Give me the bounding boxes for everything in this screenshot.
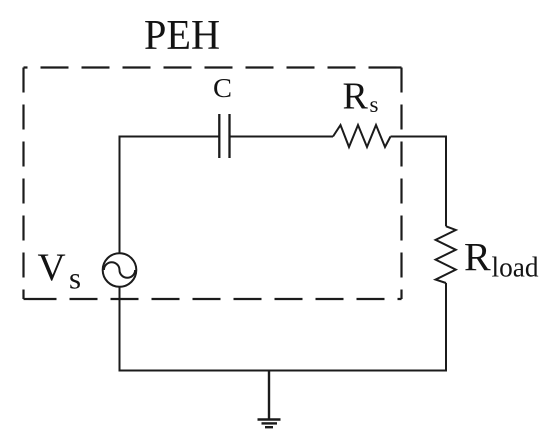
- PEH enclosure dashed box: top edge: [24, 66, 402, 68]
- wire: ground stem from bottom rail junction: [268, 371, 270, 420]
- PEH enclosure dashed box: left edge: [22, 68, 24, 300]
- resistor Rs: zigzag body: [333, 125, 391, 147]
- PEH enclosure dashed box: bottom-left corner stub: [24, 298, 29, 300]
- wire: top rail from capacitor C right plate to resistor Rs: [230, 136, 334, 138]
- ground symbol: bottom bar: [265, 426, 273, 428]
- ground symbol: middle bar: [262, 422, 278, 424]
- svg-text:R: R: [343, 76, 369, 118]
- svg-text:V: V: [38, 246, 66, 289]
- svg-text:C: C: [213, 73, 232, 103]
- svg-text:load: load: [492, 252, 539, 284]
- PEH enclosure dashed box: bottom edge: [24, 298, 402, 300]
- svg-text:R: R: [464, 235, 491, 280]
- ground symbol: top bar: [258, 418, 281, 420]
- wire: from source Vs bottom terminal down to bottom rail: [119, 287, 121, 371]
- svg-text:PEH: PEH: [144, 13, 220, 59]
- wire: top rail from left node to capacitor C left plate: [120, 136, 220, 138]
- PEH enclosure dashed box: right edge: [400, 68, 402, 300]
- svg-text:s: s: [69, 261, 81, 296]
- wire: right rail from resistor Rload down to bottom-right corner: [445, 283, 447, 371]
- wire: vertical from top node down to source Vs top terminal: [119, 136, 121, 254]
- resistor Rload: zigzag body: [436, 226, 456, 283]
- capacitor C: right plate: [228, 114, 230, 158]
- wire: bottom rail: [119, 370, 448, 372]
- svg-text:s: s: [370, 92, 379, 117]
- source Vs: AC source circle: [103, 253, 137, 287]
- capacitor C: left plate: [218, 114, 220, 158]
- wire: top rail from resistor Rs to top-right corner: [391, 136, 447, 138]
- wire: right rail from top-right corner down to resistor Rload: [445, 136, 447, 227]
- PEH enclosure dashed box: top-right corner stub: [397, 66, 402, 68]
- source Vs: sine wave inside circle: [104, 262, 135, 278]
